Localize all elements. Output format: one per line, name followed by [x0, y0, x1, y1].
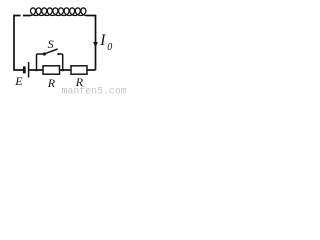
battery E — [24, 62, 28, 77]
wire top-right segment — [86, 15, 95, 17]
svg-text:E: E — [14, 74, 23, 88]
wire R2 to bottom-right corner — [87, 69, 96, 71]
svg-text:R: R — [47, 76, 56, 90]
wire top-left segment — [14, 15, 31, 17]
wire right vertical — [95, 15, 97, 70]
wire bottom-left to battery — [14, 69, 23, 71]
current arrow I0 — [93, 42, 98, 48]
switch contact dot left — [43, 52, 46, 55]
svg-text:0: 0 — [107, 42, 112, 53]
svg-text:manfen5.com: manfen5.com — [62, 85, 127, 95]
svg-text:I: I — [99, 32, 106, 49]
wire R1 to R2 — [60, 69, 72, 71]
switch contact dot right — [57, 53, 59, 55]
junction dot left — [35, 69, 38, 72]
junction dot right — [61, 69, 64, 72]
wire battery to resistor R1 — [29, 69, 43, 71]
resistor R2 — [71, 66, 87, 74]
svg-text:S: S — [48, 37, 54, 51]
inductor L (coil) — [29, 8, 87, 16]
switch S — [37, 49, 63, 70]
resistor R1 — [43, 66, 60, 74]
wire left vertical — [13, 15, 15, 71]
